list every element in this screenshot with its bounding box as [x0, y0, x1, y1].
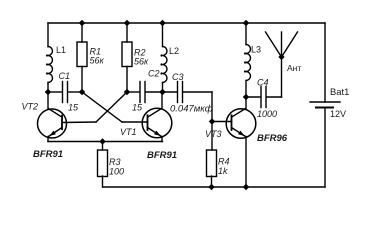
resistor R4 [207, 150, 217, 177]
svg-text:1000: 1000 [257, 109, 277, 119]
svg-text:1k: 1k [218, 166, 228, 176]
svg-text:12V: 12V [330, 109, 346, 119]
junction dot on bus above L2 [159, 20, 166, 27]
wire: node G down to R3 [102, 142, 104, 151]
inductor L3 [246, 45, 251, 81]
wire: R1 bottom to node B [81, 67, 83, 93]
svg-text:56к: 56к [90, 56, 105, 66]
svg-text:C4: C4 [257, 78, 269, 88]
wire: L1 bottom to node A [47, 83, 49, 93]
wire: L3 branch from bus [245, 23, 247, 45]
wire: R3 bottom to ground bus [102, 176, 104, 187]
wire: C3 to VT3 base column [211, 92, 213, 150]
node B junction dot [79, 89, 86, 96]
wire: cross-coupling diagonal from node C to VT2 base [96, 92, 127, 122]
svg-text:VT3: VT3 [205, 129, 222, 139]
wire: R2 branch from bus [126, 23, 128, 42]
node F junction dot [243, 94, 250, 101]
inductor L2 [163, 47, 168, 83]
wire: top supply bus [48, 22, 325, 24]
svg-text:L3: L3 [251, 45, 261, 55]
wire: R4 bottom to ground bus [211, 176, 213, 187]
wire: R1 branch from bus [81, 23, 83, 42]
svg-text:15: 15 [68, 103, 79, 113]
node C junction dot [124, 89, 131, 96]
transistor VT2 [38, 92, 67, 142]
node A junction dot [45, 89, 52, 96]
svg-text:VT1: VT1 [120, 127, 137, 137]
wire: bottom ground bus [103, 186, 325, 188]
wire: battery minus down to bottom bus [324, 108, 326, 188]
wire: L2 branch from bus [162, 23, 164, 47]
resistor R2 [122, 42, 132, 67]
svg-text:0.047мкф: 0.047мкф [170, 104, 213, 115]
wire: VT1 base lead [122, 121, 148, 123]
wire: cross-coupling diagonal from node B to VT1 base [82, 92, 122, 122]
capacitor C2 [127, 82, 163, 103]
svg-text:Bat1: Bat1 [330, 86, 349, 97]
svg-text:Ант: Ант [287, 63, 301, 73]
junction dot on bus above L3 [243, 20, 250, 27]
wire: left branch from bus down to L1 [47, 23, 49, 47]
resistor R1 [77, 42, 87, 67]
wire: VT2 base lead [62, 121, 96, 124]
svg-text:R3: R3 [109, 157, 121, 167]
svg-text:C3: C3 [172, 72, 184, 82]
wire: R2 bottom to node C [126, 67, 128, 93]
junction dot VT3 emitter on bottom bus [243, 184, 250, 191]
node G junction dot (R3 top) [99, 138, 106, 145]
svg-text:15: 15 [132, 103, 143, 113]
capacitor C4 [246, 87, 282, 108]
svg-text:R4: R4 [218, 157, 230, 167]
transistor VT3 [226, 97, 256, 187]
svg-text:BFR91: BFR91 [33, 149, 63, 160]
svg-text:BFR96: BFR96 [257, 133, 288, 144]
wire: bus right end down to battery [324, 23, 326, 102]
junction dot on bus above R2 [124, 20, 131, 27]
svg-text:L1: L1 [56, 45, 66, 55]
node E junction dot (VT3 base) [209, 118, 216, 125]
wire: L2 bottom to node D [162, 83, 164, 93]
battery Bat1 [310, 102, 340, 108]
wire: VT3 base lead [212, 121, 232, 123]
svg-text:L2: L2 [169, 46, 179, 56]
resistor R3 [98, 150, 108, 177]
node D junction dot [159, 89, 166, 96]
svg-text:100: 100 [109, 167, 124, 177]
inductor L1 [48, 47, 53, 83]
junction dot on bus above R1 [79, 20, 86, 27]
capacitor C1 [48, 82, 82, 103]
junction dot R4 on bottom bus [208, 184, 215, 191]
svg-text:VT2: VT2 [22, 102, 39, 112]
svg-text:BFR91: BFR91 [147, 150, 177, 161]
svg-text:C1: C1 [59, 71, 71, 81]
antenna Ант [266, 32, 298, 97]
wire: L3 bottom to node F [245, 81, 247, 98]
svg-text:56к: 56к [134, 57, 149, 67]
svg-text:C2: C2 [148, 69, 160, 79]
transistor VT1 [142, 92, 172, 142]
capacitor C3 [163, 82, 213, 103]
wire: emitter bus VT2-VT1 [48, 141, 163, 143]
